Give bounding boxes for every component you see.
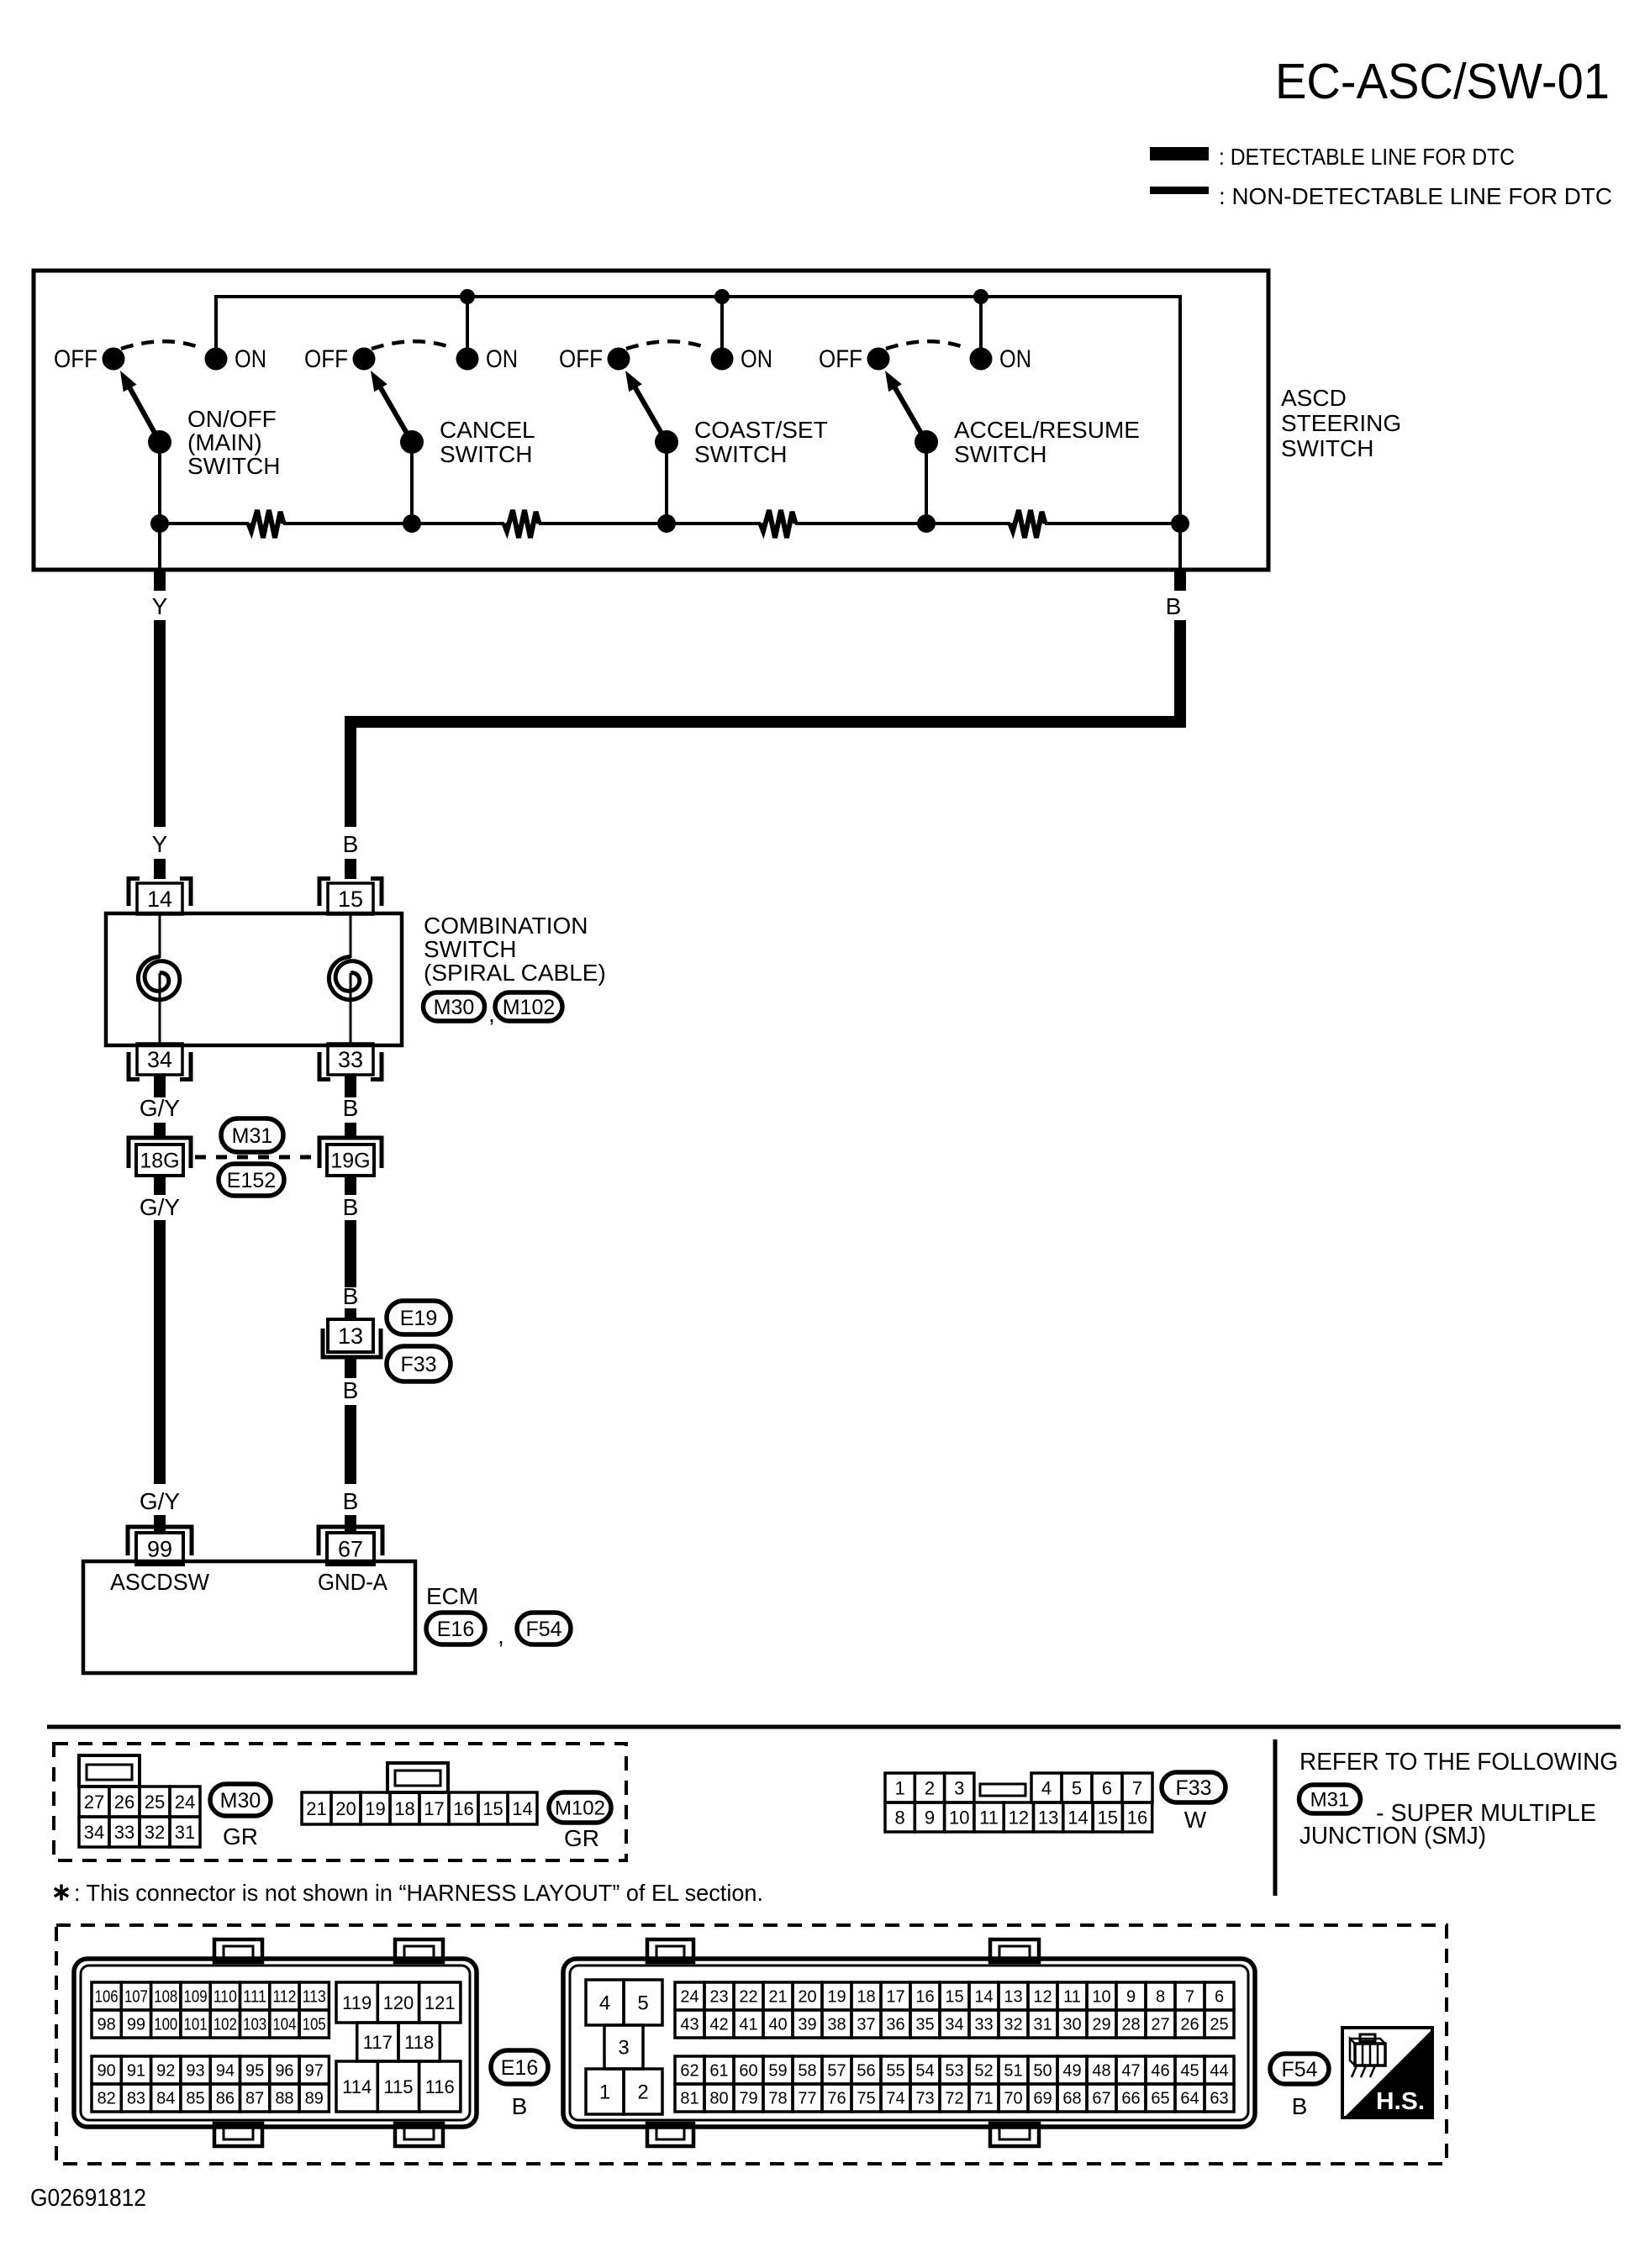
svg-text:ACCEL/RESUME: ACCEL/RESUME (954, 417, 1140, 443)
svg-text:9: 9 (1126, 1988, 1136, 2007)
svg-text:23: 23 (709, 1988, 728, 2007)
svg-text:16: 16 (915, 1988, 934, 2007)
svg-text:79: 79 (739, 2090, 757, 2108)
svg-text:4: 4 (1041, 1777, 1052, 1798)
svg-text:120: 120 (383, 1992, 414, 2013)
svg-text:Y: Y (152, 593, 168, 619)
svg-text:M31: M31 (232, 1124, 273, 1148)
svg-text:76: 76 (827, 2090, 846, 2108)
svg-text:39: 39 (798, 2016, 816, 2034)
svg-text:52: 52 (974, 2062, 993, 2081)
svg-text:SWITCH: SWITCH (1281, 435, 1373, 461)
svg-text:M31: M31 (1310, 1789, 1350, 1812)
svg-text:38: 38 (827, 2016, 846, 2034)
svg-text:17: 17 (886, 1988, 904, 2007)
svg-text:14: 14 (1067, 1807, 1088, 1828)
svg-text:74: 74 (886, 2090, 904, 2108)
svg-text:81: 81 (680, 2090, 698, 2108)
svg-text:20: 20 (335, 1798, 356, 1819)
svg-text:114: 114 (342, 2076, 372, 2097)
svg-text:SWITCH: SWITCH (694, 441, 787, 467)
svg-text:F33: F33 (1175, 1776, 1211, 1800)
svg-text:54: 54 (915, 2062, 934, 2081)
svg-text:3: 3 (954, 1777, 964, 1798)
svg-text:101: 101 (184, 2016, 208, 2034)
svg-text:17: 17 (424, 1798, 444, 1819)
svg-text:32: 32 (145, 1822, 165, 1843)
svg-text:90: 90 (98, 2062, 116, 2081)
svg-text:103: 103 (243, 2016, 266, 2034)
svg-text:31: 31 (175, 1822, 195, 1843)
svg-text:25: 25 (1210, 2016, 1228, 2034)
svg-text:ASCD: ASCD (1281, 385, 1347, 411)
svg-text:72: 72 (945, 2090, 963, 2108)
svg-text:34: 34 (147, 1047, 172, 1072)
svg-text:19: 19 (365, 1798, 385, 1819)
svg-text:W: W (1184, 1807, 1207, 1833)
svg-text:84: 84 (156, 2090, 175, 2108)
svg-text:12: 12 (1009, 1807, 1029, 1828)
svg-text:113: 113 (303, 1988, 326, 2007)
svg-text:: This connector is not shown: : This connector is not shown in “HARNES… (74, 1880, 763, 1906)
svg-text:19G: 19G (330, 1150, 370, 1173)
svg-text:26: 26 (1180, 2016, 1199, 2034)
svg-text:ON/OFF: ON/OFF (187, 406, 277, 432)
svg-text:29: 29 (1092, 2016, 1110, 2034)
svg-text:85: 85 (186, 2090, 204, 2108)
svg-text:SWITCH: SWITCH (424, 936, 516, 962)
svg-text:13: 13 (1004, 1988, 1022, 2007)
svg-text:40: 40 (768, 2016, 787, 2034)
svg-text:16: 16 (1127, 1807, 1147, 1828)
svg-text:107: 107 (124, 1988, 148, 2007)
svg-text:32: 32 (1004, 2016, 1022, 2034)
svg-text:53: 53 (945, 2062, 963, 2081)
svg-text:63: 63 (1210, 2090, 1228, 2108)
svg-text:71: 71 (974, 2090, 993, 2108)
svg-text:119: 119 (342, 1992, 372, 2013)
svg-text:14: 14 (147, 887, 172, 912)
svg-text:JUNCTION (SMJ): JUNCTION (SMJ) (1299, 1823, 1486, 1850)
svg-text:COMBINATION: COMBINATION (424, 913, 588, 939)
svg-text:M30: M30 (220, 1789, 261, 1813)
svg-text:6: 6 (1102, 1777, 1112, 1798)
svg-text:(SPIRAL CABLE): (SPIRAL CABLE) (424, 960, 606, 986)
svg-text:GR: GR (223, 1823, 258, 1850)
svg-text:10: 10 (1092, 1988, 1110, 2007)
svg-text:B: B (343, 1194, 359, 1220)
svg-text:48: 48 (1092, 2062, 1110, 2081)
svg-text:11: 11 (1063, 1988, 1081, 2007)
svg-text:1: 1 (599, 2081, 610, 2104)
svg-text:B: B (1292, 2093, 1308, 2119)
svg-text:60: 60 (739, 2062, 757, 2081)
svg-text:49: 49 (1062, 2062, 1081, 2081)
svg-text:ON: ON (486, 345, 518, 373)
svg-text:H.S.: H.S. (1376, 2088, 1425, 2115)
svg-text:E19: E19 (400, 1307, 437, 1330)
svg-text:41: 41 (739, 2016, 757, 2034)
svg-text:61: 61 (709, 2062, 728, 2081)
svg-text:8: 8 (1156, 1988, 1165, 2007)
svg-text:20: 20 (798, 1988, 816, 2007)
svg-text:35: 35 (915, 2016, 934, 2034)
svg-text:112: 112 (272, 1988, 296, 2007)
svg-text:B: B (343, 1095, 359, 1121)
svg-text:47: 47 (1121, 2062, 1140, 2081)
svg-text:69: 69 (1033, 2090, 1052, 2108)
svg-text:80: 80 (709, 2090, 728, 2108)
svg-text:98: 98 (98, 2016, 116, 2034)
svg-text:21: 21 (768, 1988, 787, 2007)
svg-text:12: 12 (1033, 1988, 1052, 2007)
svg-text:2: 2 (637, 2081, 648, 2104)
svg-text:59: 59 (768, 2062, 787, 2081)
svg-text:SWITCH: SWITCH (954, 441, 1046, 467)
svg-text:10: 10 (949, 1807, 969, 1828)
svg-text:24: 24 (175, 1792, 195, 1813)
svg-text:64: 64 (1180, 2090, 1199, 2108)
svg-text:109: 109 (184, 1988, 208, 2007)
svg-text:73: 73 (915, 2090, 934, 2108)
svg-text:SWITCH: SWITCH (187, 453, 280, 479)
svg-text:: DETECTABLE LINE FOR DTC: : DETECTABLE LINE FOR DTC (1219, 144, 1515, 170)
svg-text:ON: ON (741, 345, 772, 373)
svg-text:24: 24 (680, 1988, 698, 2007)
svg-text:33: 33 (974, 2016, 993, 2034)
svg-text:89: 89 (305, 2090, 324, 2108)
svg-text:22: 22 (739, 1988, 757, 2007)
svg-text:102: 102 (213, 2016, 237, 2034)
svg-text:ASCDSW: ASCDSW (110, 1569, 210, 1595)
svg-text:99: 99 (127, 2016, 145, 2034)
svg-text:OFF: OFF (819, 345, 862, 373)
svg-text:CANCEL: CANCEL (440, 417, 535, 443)
svg-text:14: 14 (512, 1798, 532, 1819)
svg-text:117: 117 (363, 2032, 393, 2053)
svg-text:,: , (498, 1623, 504, 1649)
svg-text:GR: GR (564, 1825, 599, 1851)
svg-text:33: 33 (338, 1047, 363, 1072)
svg-text:7: 7 (1185, 1988, 1194, 2007)
svg-text:68: 68 (1062, 2090, 1081, 2108)
svg-text:3: 3 (618, 2037, 629, 2060)
svg-text:51: 51 (1004, 2062, 1022, 2081)
svg-text:33: 33 (114, 1822, 134, 1843)
svg-text:B: B (512, 2093, 528, 2119)
svg-text:B: B (343, 831, 359, 857)
svg-text:REFER TO THE FOLLOWING: REFER TO THE FOLLOWING (1299, 1749, 1618, 1776)
svg-text:26: 26 (114, 1792, 134, 1813)
svg-text:B: B (1166, 593, 1182, 619)
svg-text:5: 5 (637, 1992, 648, 2015)
svg-text:F54: F54 (1281, 2058, 1317, 2081)
svg-text:19: 19 (827, 1988, 846, 2007)
svg-text:F33: F33 (400, 1353, 436, 1376)
svg-text:43: 43 (680, 2016, 698, 2034)
svg-text:ON: ON (999, 345, 1031, 373)
svg-text:118: 118 (404, 2032, 434, 2053)
svg-text:15: 15 (338, 887, 363, 912)
svg-text:28: 28 (1121, 2016, 1140, 2034)
svg-text:87: 87 (245, 2090, 264, 2108)
svg-text:4: 4 (599, 1992, 610, 2015)
svg-text:5: 5 (1072, 1777, 1082, 1798)
svg-text:100: 100 (154, 2016, 177, 2034)
svg-text:50: 50 (1033, 2062, 1052, 2081)
svg-text:75: 75 (857, 2090, 875, 2108)
svg-text:67: 67 (338, 1537, 363, 1562)
svg-text:E16: E16 (437, 1618, 474, 1641)
svg-text:STEERING: STEERING (1281, 410, 1401, 436)
svg-text:92: 92 (156, 2062, 175, 2081)
svg-text:F54: F54 (525, 1618, 561, 1641)
svg-text:ECM: ECM (426, 1583, 478, 1609)
svg-text:6: 6 (1215, 1988, 1224, 2007)
svg-text:121: 121 (424, 1992, 456, 2013)
svg-text:82: 82 (98, 2090, 116, 2108)
svg-text:77: 77 (798, 2090, 816, 2108)
svg-text:E16: E16 (501, 2056, 538, 2080)
svg-text:111: 111 (243, 1988, 266, 2007)
svg-text:83: 83 (127, 2090, 145, 2108)
svg-text:M30: M30 (434, 996, 475, 1019)
svg-text:21: 21 (306, 1798, 326, 1819)
svg-text:25: 25 (145, 1792, 165, 1813)
svg-text:B: B (343, 1377, 359, 1403)
svg-text:27: 27 (1151, 2016, 1169, 2034)
svg-text:15: 15 (1098, 1807, 1118, 1828)
svg-text:56: 56 (857, 2062, 875, 2081)
svg-text:105: 105 (303, 2016, 326, 2034)
svg-text:SWITCH: SWITCH (440, 441, 532, 467)
svg-text:110: 110 (213, 1988, 237, 2007)
svg-text:104: 104 (272, 2016, 296, 2034)
svg-text:57: 57 (827, 2062, 846, 2081)
svg-text:(MAIN): (MAIN) (187, 429, 262, 455)
svg-text:65: 65 (1151, 2090, 1169, 2108)
svg-text:88: 88 (275, 2090, 293, 2108)
svg-text:ON: ON (235, 345, 266, 373)
svg-text:M102: M102 (555, 1797, 605, 1820)
svg-text:: NON-DETECTABLE LINE FOR DTC: : NON-DETECTABLE LINE FOR DTC (1219, 183, 1612, 209)
svg-text:86: 86 (216, 2090, 235, 2108)
svg-text:27: 27 (84, 1792, 104, 1813)
svg-text:11: 11 (979, 1807, 999, 1828)
svg-text:G/Y: G/Y (140, 1194, 181, 1220)
svg-text:46: 46 (1151, 2062, 1169, 2081)
svg-text:34: 34 (84, 1822, 104, 1843)
svg-text:1: 1 (895, 1777, 905, 1798)
svg-text:37: 37 (857, 2016, 875, 2034)
svg-text:OFF: OFF (559, 345, 603, 373)
svg-text:36: 36 (886, 2016, 904, 2034)
svg-text:G02691812: G02691812 (30, 2185, 146, 2212)
svg-text:66: 66 (1121, 2090, 1140, 2108)
svg-text:B: B (343, 1283, 359, 1309)
svg-text:18G: 18G (140, 1150, 179, 1173)
svg-text:G/Y: G/Y (140, 1488, 181, 1514)
svg-text:OFF: OFF (304, 345, 348, 373)
svg-text:9: 9 (925, 1807, 935, 1828)
svg-text:115: 115 (383, 2076, 413, 2097)
svg-text:18: 18 (394, 1798, 414, 1819)
svg-text:COAST/SET: COAST/SET (694, 417, 828, 443)
svg-text:B: B (343, 1488, 359, 1514)
svg-text:93: 93 (186, 2062, 204, 2081)
svg-text:78: 78 (768, 2090, 787, 2108)
svg-text:16: 16 (453, 1798, 473, 1819)
svg-text:67: 67 (1092, 2090, 1110, 2108)
svg-text:18: 18 (857, 1988, 875, 2007)
svg-text:116: 116 (425, 2076, 455, 2097)
svg-text:G/Y: G/Y (140, 1095, 181, 1121)
svg-text:30: 30 (1062, 2016, 1081, 2034)
svg-text:94: 94 (216, 2062, 235, 2081)
svg-text:15: 15 (482, 1798, 503, 1819)
svg-text:44: 44 (1210, 2062, 1228, 2081)
svg-text:34: 34 (945, 2016, 963, 2034)
svg-text:13: 13 (338, 1323, 363, 1349)
svg-text:E152: E152 (227, 1169, 276, 1192)
svg-text:42: 42 (709, 2016, 728, 2034)
svg-text:15: 15 (945, 1988, 963, 2007)
svg-text:95: 95 (245, 2062, 264, 2081)
svg-text:108: 108 (154, 1988, 177, 2007)
svg-text:14: 14 (974, 1988, 993, 2007)
svg-text:91: 91 (127, 2062, 145, 2081)
svg-text:45: 45 (1180, 2062, 1199, 2081)
svg-text:97: 97 (305, 2062, 324, 2081)
svg-text:55: 55 (886, 2062, 904, 2081)
svg-text:62: 62 (680, 2062, 698, 2081)
svg-text:96: 96 (275, 2062, 293, 2081)
svg-text:EC-ASC/SW-01: EC-ASC/SW-01 (1275, 54, 1610, 109)
svg-text:Y: Y (152, 831, 168, 857)
svg-text:99: 99 (147, 1537, 172, 1562)
svg-text:OFF: OFF (54, 345, 98, 373)
svg-text:70: 70 (1004, 2090, 1022, 2108)
svg-text:M102: M102 (503, 996, 556, 1019)
svg-text:58: 58 (798, 2062, 816, 2081)
svg-text:2: 2 (925, 1777, 935, 1798)
svg-text:GND-A: GND-A (318, 1569, 387, 1595)
svg-text:31: 31 (1033, 2016, 1052, 2034)
svg-text:8: 8 (895, 1807, 905, 1828)
svg-text:13: 13 (1038, 1807, 1058, 1828)
svg-text:7: 7 (1132, 1777, 1142, 1798)
svg-text:106: 106 (95, 1988, 119, 2007)
